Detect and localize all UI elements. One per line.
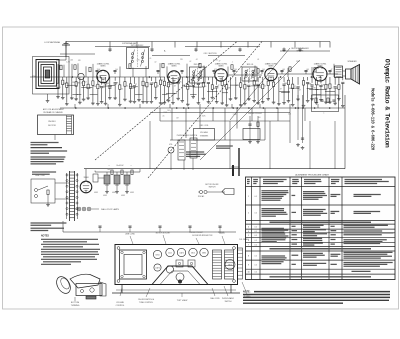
svg-text:OSC. SECTION: OSC. SECTION: [204, 53, 218, 55]
svg-text:.1: .1: [232, 62, 233, 64]
svg-text:.005: .005: [282, 69, 285, 71]
svg-text:LINE CORD: LINE CORD: [35, 175, 45, 177]
svg-text:VOLUME: VOLUME: [116, 302, 124, 304]
svg-text:1: 1: [248, 196, 249, 198]
svg-text:CONTROL: CONTROL: [116, 305, 125, 307]
svg-text:PHONO-RADIO SWITCH: PHONO-RADIO SWITCH: [177, 134, 198, 137]
svg-text:Models 6-606-110 & 6-606-220: Models 6-606-110 & 6-606-220: [370, 88, 375, 151]
svg-text:40MF: 40MF: [130, 192, 134, 194]
svg-text:30MF: 30MF: [125, 185, 129, 187]
svg-text:.02: .02: [189, 61, 191, 63]
svg-text:.01: .01: [59, 87, 61, 89]
svg-text:Olympic Radio & Television: Olympic Radio & Television: [384, 59, 391, 148]
svg-text:0.5: 0.5: [255, 227, 257, 229]
svg-text:47: 47: [174, 86, 176, 88]
svg-text:SWITCH: SWITCH: [209, 187, 216, 189]
svg-text:0.5: 0.5: [255, 256, 257, 258]
svg-text:PHONO PICKUP: PHONO PICKUP: [248, 113, 263, 115]
svg-text:.1: .1: [331, 87, 332, 89]
svg-text:.02: .02: [84, 82, 86, 84]
svg-text:6BE6: 6BE6: [202, 253, 206, 255]
svg-text:.02: .02: [257, 59, 259, 61]
svg-text:TOP VIEW: TOP VIEW: [177, 300, 189, 302]
svg-text:PHONO PICKUP: PHONO PICKUP: [189, 232, 204, 234]
svg-text:.1: .1: [170, 111, 171, 113]
svg-text:PHONO: PHONO: [48, 121, 56, 123]
svg-text:ALIGNMENT PROCEDURE CHART: ALIGNMENT PROCEDURE CHART: [295, 174, 329, 177]
svg-text:12BE6 CONV.: 12BE6 CONV.: [215, 64, 228, 66]
svg-text:0.5: 0.5: [255, 265, 257, 267]
svg-text:3RD I.F.: 3RD I.F.: [247, 64, 254, 66]
svg-text:40MF: 40MF: [94, 192, 98, 194]
svg-text:.02: .02: [293, 86, 295, 88]
svg-text:12BE6 CONV.: 12BE6 CONV.: [314, 64, 327, 66]
svg-text:50C5: 50C5: [168, 253, 172, 255]
svg-text:40MF: 40MF: [103, 195, 107, 197]
svg-text:.01: .01: [149, 58, 151, 60]
svg-text:.1: .1: [323, 112, 324, 114]
svg-text:0.5: 0.5: [255, 231, 257, 233]
svg-text:TURNING: TURNING: [71, 305, 80, 307]
svg-text:115V AC: 115V AC: [198, 195, 205, 198]
svg-text:0.5: 0.5: [255, 244, 257, 246]
svg-text:.02: .02: [154, 61, 156, 63]
svg-text:.02: .02: [120, 88, 122, 90]
svg-text:3: 3: [248, 227, 249, 229]
svg-text:100: 100: [234, 69, 237, 71]
svg-text:100: 100: [262, 69, 265, 71]
svg-text:NOTE:: NOTE:: [243, 291, 251, 294]
svg-text:100: 100: [93, 86, 96, 88]
svg-text:LOOP ANTENNA: LOOP ANTENNA: [44, 41, 60, 44]
svg-text:12BE6 CONV.: 12BE6 CONV.: [97, 64, 110, 66]
svg-text:.01: .01: [89, 88, 91, 90]
svg-text:7: 7: [248, 244, 249, 246]
svg-text:6BJ6: 6BJ6: [191, 253, 195, 255]
svg-text:ANT. COIL ADJUSTMENT: ANT. COIL ADJUSTMENT: [43, 108, 65, 111]
svg-text:.005: .005: [151, 83, 154, 85]
svg-text:2ND I.F.: 2ND I.F.: [194, 64, 201, 66]
svg-text:.005: .005: [306, 69, 309, 71]
svg-text:TRIMMERS: TRIMMERS: [200, 136, 209, 138]
svg-text:TONE CONTROL: TONE CONTROL: [139, 302, 153, 304]
svg-text:B+ 110V: B+ 110V: [117, 165, 125, 167]
svg-text:47: 47: [219, 60, 221, 62]
svg-text:47: 47: [135, 84, 137, 86]
svg-text:DIAL CORD: DIAL CORD: [210, 297, 220, 300]
svg-text:BOTTOM: BOTTOM: [71, 302, 79, 304]
svg-text:455KC: 455KC: [130, 88, 136, 90]
svg-text:10: 10: [247, 272, 249, 274]
svg-text:.005: .005: [70, 60, 73, 62]
svg-text:12BE6 CONV.: 12BE6 CONV.: [168, 64, 181, 66]
svg-text:47: 47: [218, 85, 220, 87]
svg-text:0.5: 0.5: [255, 196, 257, 198]
svg-text:.1: .1: [165, 86, 166, 88]
svg-text:50MF: 50MF: [115, 185, 119, 187]
svg-text:6: 6: [248, 240, 249, 242]
svg-text:LINE CORD: LINE CORD: [125, 234, 135, 236]
svg-text:.05: .05: [162, 116, 164, 118]
svg-text:SWITCH: SWITCH: [225, 301, 232, 303]
svg-text:.05: .05: [263, 86, 265, 88]
svg-text:MOTOR: MOTOR: [297, 51, 304, 53]
svg-text:0.5: 0.5: [255, 272, 257, 274]
svg-text:45 RPM MOTOR: 45 RPM MOTOR: [200, 235, 214, 237]
svg-text:VOL.: VOL.: [169, 144, 173, 146]
svg-text:DIAL & PILOT LAMPS: DIAL & PILOT LAMPS: [101, 208, 120, 211]
svg-text:OSC. COIL: OSC. COIL: [199, 125, 208, 127]
svg-text:5: 5: [248, 235, 249, 237]
svg-text:MOTOR SOCKET: MOTOR SOCKET: [156, 233, 171, 235]
svg-text:NOTES: NOTES: [41, 236, 49, 238]
svg-text:8: 8: [248, 256, 249, 258]
svg-text:100: 100: [115, 69, 118, 71]
svg-text:PHONO-RADIO: PHONO-RADIO: [222, 297, 235, 300]
svg-text:MOTOR: MOTOR: [48, 125, 56, 127]
svg-text:.05: .05: [204, 86, 206, 88]
svg-text:B+: B+: [164, 51, 166, 53]
svg-text:4: 4: [248, 231, 249, 233]
svg-text:0.5: 0.5: [255, 240, 257, 242]
svg-text:2: 2: [248, 213, 249, 215]
svg-text:100: 100: [213, 88, 216, 90]
svg-text:9: 9: [248, 265, 249, 267]
svg-text:SPEAKER: SPEAKER: [348, 60, 358, 63]
svg-text:.02: .02: [195, 59, 197, 61]
svg-text:0.5: 0.5: [255, 213, 257, 215]
svg-text:47: 47: [299, 90, 301, 92]
svg-text:100: 100: [156, 86, 159, 88]
svg-text:40MF: 40MF: [121, 195, 125, 197]
svg-text:40MF: 40MF: [112, 192, 116, 194]
svg-text:.02: .02: [126, 85, 128, 87]
svg-text:0.5: 0.5: [255, 235, 257, 237]
svg-text:47: 47: [331, 69, 333, 71]
svg-text:47: 47: [280, 89, 282, 91]
svg-text:35W4: 35W4: [155, 255, 159, 257]
svg-text:ON-OFF SWITCH &: ON-OFF SWITCH &: [138, 299, 155, 301]
svg-text:ON REAR OF CHASSIS: ON REAR OF CHASSIS: [43, 111, 63, 114]
svg-text:PICKUP: PICKUP: [218, 232, 225, 234]
svg-text:30MF: 30MF: [105, 185, 109, 187]
